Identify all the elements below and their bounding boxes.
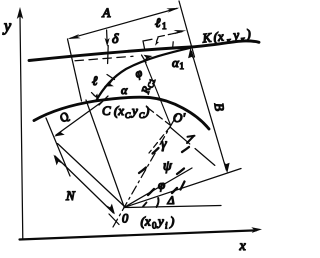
dashed line C to O' (radius RC1) [148,108,170,125]
x-axis [20,227,263,239]
arc dimension arrow upper (points up-right) [144,55,153,61]
thick profile curve [34,97,209,129]
fan line L2 from O [124,169,241,208]
fan line L3 from O [124,168,192,208]
dashed deviation line under tangent [75,56,133,61]
right extension edge [179,1,195,57]
svg-text:): ) [169,214,174,229]
svg-text:A: A [102,5,111,20]
short tick below O [109,214,119,225]
right-angle bracket on tangent [143,39,152,48]
fan line L1 horizontal from O [124,206,221,208]
gamma arc heavy ends [153,136,195,154]
svg-text:0: 0 [122,212,129,226]
tick on arc lower [107,75,115,80]
svg-text:ψ: ψ [163,159,172,174]
label K coordinates [201,26,252,48]
svg-text:): ) [144,103,149,118]
dimension line A [68,8,180,39]
svg-text:Δ: Δ [167,193,175,207]
dimension line B [188,48,230,174]
svg-text:y: y [156,214,164,229]
svg-text:ℓ: ℓ [155,15,161,30]
svg-text:1: 1 [180,61,185,71]
svg-text:1: 1 [162,21,167,31]
y-axis [17,7,23,240]
svg-text:y: y [130,103,138,118]
fan line O to curve tangent point [86,100,124,207]
tick X at point C [99,96,108,105]
svg-text:(x: (x [141,214,151,229]
svg-text:γ: γ [161,137,167,152]
delta arrow [105,30,110,47]
svg-text:(x: (x [213,29,225,45]
extension line E1 [46,118,70,176]
tick on arc upper [142,55,147,63]
N dimension line [54,155,116,215]
Q dimension line with arrows [54,103,101,137]
arc dimension arrow lower (points down-left) [104,81,114,87]
small arrow into C from upper-left [92,93,99,100]
involute arc C to K [96,48,191,101]
svg-text:0: 0 [152,221,157,231]
normal direction line from O to extension line [58,144,125,207]
tick on tangent left of K [172,42,175,49]
svg-text:C: C [125,111,131,120]
svg-text:x: x [239,239,247,254]
psi arc heavy ends [139,168,184,175]
solid radius line RC1 from arc tick to O' [144,59,171,125]
svg-text:C (x: C (x [102,103,124,118]
svg-text:O': O' [173,110,185,125]
small arrow at tangent near bracket [155,38,159,46]
phi arc heavy ends [143,182,185,207]
svg-text:ℓ: ℓ [92,73,98,88]
svg-text:N: N [65,188,76,203]
delta angle arc [157,198,159,207]
gamma legs from O' [149,127,219,169]
thick tangent line through K [29,41,259,61]
l1 dash-dot arrow [158,30,186,37]
left extension edge [68,39,82,101]
svg-text:y: y [2,18,12,35]
tick crossing tangent at x=108 [107,46,110,64]
svg-text:δ: δ [112,32,119,47]
svg-text:α: α [121,83,128,97]
dash-dot line O to O' [113,113,178,227]
